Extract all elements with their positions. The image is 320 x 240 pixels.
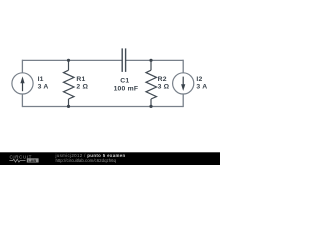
current source I2 arrow (down): [181, 77, 185, 91]
wire right vertical lower: [182, 94, 184, 107]
svg-text:LAB: LAB: [28, 158, 36, 163]
svg-text:2 Ω: 2 Ω: [76, 84, 88, 91]
svg-text:http://circuitlab.com/c62dqzh6: http://circuitlab.com/c62dqzh6q: [56, 158, 117, 163]
resistor R2 lead bottom: [150, 99, 152, 107]
resistor R2 zigzag: [146, 70, 157, 99]
svg-text:3 Ω: 3 Ω: [158, 84, 170, 91]
wire bottom: [23, 106, 184, 108]
capacitor C1 right plate: [125, 48, 127, 72]
svg-text:I2: I2: [196, 76, 202, 83]
current source I1 arrow (up): [20, 76, 24, 91]
svg-text:3 A: 3 A: [38, 84, 49, 91]
svg-text:R1: R1: [76, 76, 85, 83]
wire top-left segment: [23, 59, 122, 61]
wire left vertical lower: [21, 94, 23, 107]
junction dot R1 bottom: [67, 105, 70, 108]
resistor R1 lead top: [68, 60, 70, 70]
wire left vertical upper: [21, 60, 23, 73]
svg-text:100 mF: 100 mF: [114, 86, 139, 93]
resistor R1 lead bottom: [68, 99, 70, 107]
svg-text:C1: C1: [120, 78, 129, 85]
resistor R2 lead top: [150, 60, 152, 70]
svg-text:I1: I1: [38, 76, 44, 83]
junction dot R2 top: [149, 59, 152, 62]
junction dot R1 top: [67, 59, 70, 62]
resistor R1 zigzag: [64, 70, 75, 99]
current source I1 circle: [12, 73, 33, 94]
wire top-right segment: [126, 59, 183, 61]
capacitor C1 left plate: [121, 48, 123, 72]
junction dot R2 bottom: [149, 105, 152, 108]
svg-text:3 A: 3 A: [196, 84, 207, 91]
current source I2 circle: [173, 73, 194, 94]
CircuitLab logo: resistor squiggle: [9, 159, 25, 162]
footer black bar: [0, 152, 220, 165]
wire right vertical upper: [182, 60, 184, 73]
CircuitLab logo: LAB: [27, 158, 39, 162]
svg-text:R2: R2: [158, 76, 167, 83]
